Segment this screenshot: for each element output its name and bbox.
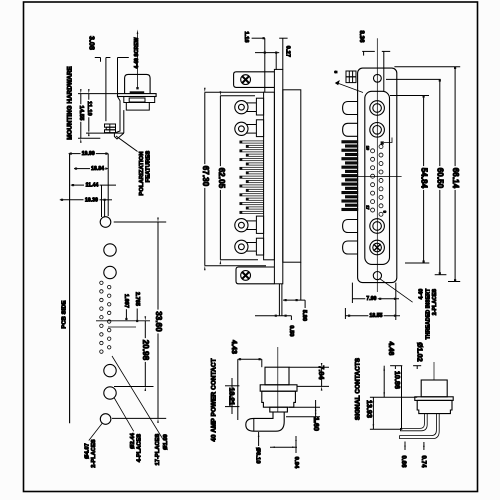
svg-text:67.30: 67.30 [201, 166, 210, 187]
svg-text:Ø2.44: Ø2.44 [130, 432, 136, 449]
svg-text:POLARIZATION: POLARIZATION [139, 151, 145, 195]
svg-text:4-40: 4-40 [419, 289, 425, 300]
svg-text:17-PLACES: 17-PLACES [155, 434, 161, 466]
svg-text:11.10: 11.10 [86, 101, 92, 116]
svg-text:FEATURES: FEATURES [146, 151, 152, 183]
svg-text:8: 8 [382, 211, 386, 213]
svg-text:17: 17 [366, 205, 370, 209]
svg-text:1.097: 1.097 [123, 294, 129, 308]
svg-text:19.99: 19.99 [82, 151, 95, 157]
svg-text:18.84: 18.84 [91, 166, 104, 172]
svg-text:11.44: 11.44 [86, 183, 99, 189]
svg-text:18.55: 18.55 [369, 313, 382, 319]
svg-text:4-PLACES: 4-PLACES [136, 434, 142, 463]
svg-text:10.86: 10.86 [393, 371, 400, 389]
svg-text:60.50: 60.50 [436, 168, 445, 189]
svg-text:0.66: 0.66 [400, 455, 406, 468]
svg-text:7.90: 7.90 [366, 296, 376, 302]
svg-text:10.39: 10.39 [85, 197, 98, 203]
svg-text:5.80: 5.80 [301, 310, 307, 321]
svg-text:Ø1.09: Ø1.09 [163, 434, 169, 450]
svg-text:2-PLACES: 2-PLACES [432, 288, 438, 315]
svg-text:8.36: 8.36 [358, 30, 364, 43]
svg-text:1.16: 1.16 [243, 31, 249, 42]
svg-text:33.60: 33.60 [154, 311, 163, 332]
svg-text:MOUNTING HARDWARE: MOUNTING HARDWARE [66, 66, 73, 140]
svg-text:2.765: 2.765 [134, 292, 140, 306]
svg-text:13.93: 13.93 [365, 400, 372, 418]
svg-text:THREADED INSERT: THREADED INSERT [425, 288, 431, 340]
svg-text:54.84: 54.84 [419, 168, 428, 189]
svg-text:PCB SIDE: PCB SIDE [62, 300, 68, 328]
svg-text:4.43: 4.43 [230, 340, 237, 354]
svg-text:62.05: 62.05 [217, 168, 226, 189]
svg-text:20.98: 20.98 [141, 340, 150, 361]
svg-text:4-40 SCREW: 4-40 SCREW [134, 37, 140, 68]
svg-text:SIGNAL CONTACTS: SIGNAL CONTACTS [355, 357, 362, 420]
svg-text:10: 10 [366, 146, 370, 150]
svg-text:0.74: 0.74 [420, 455, 426, 468]
svg-text:14.55: 14.55 [78, 105, 84, 121]
svg-text:Ø4.07: Ø4.07 [85, 443, 91, 459]
svg-text:66.14: 66.14 [451, 168, 460, 189]
svg-text:2-PLACES: 2-PLACES [91, 439, 97, 468]
svg-text:40 AMP POWER CONTACT: 40 AMP POWER CONTACT [211, 358, 218, 441]
svg-text:0.94: 0.94 [293, 457, 299, 469]
svg-text:4.46: 4.46 [387, 341, 394, 355]
svg-text:13.21: 13.21 [228, 387, 235, 405]
svg-text:0.27: 0.27 [285, 46, 291, 57]
svg-text:Ø1.02: Ø1.02 [416, 342, 423, 362]
svg-text:Ø6.10: Ø6.10 [255, 447, 261, 463]
svg-text:3.08: 3.08 [87, 36, 94, 50]
svg-text:0.50: 0.50 [288, 325, 294, 336]
